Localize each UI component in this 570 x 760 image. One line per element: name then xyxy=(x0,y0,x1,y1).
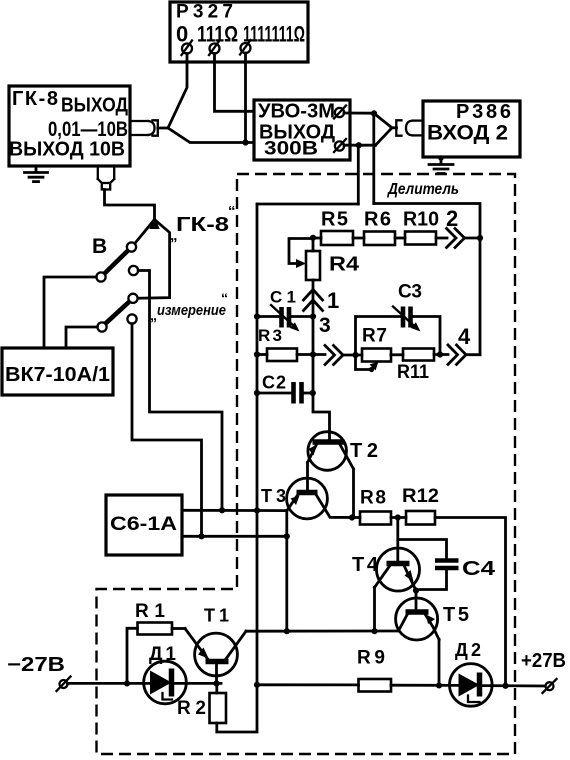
terminal lower of UVO-3M xyxy=(334,139,346,152)
wire +27V rail left segment xyxy=(257,683,359,686)
wire UVO lower terminal right xyxy=(344,144,376,147)
wire C1 left xyxy=(257,315,279,318)
wire T2 collector down to R8 node xyxy=(352,469,355,518)
zener diode D1 xyxy=(144,644,187,704)
resistor R12 xyxy=(402,486,439,525)
instrument box GK-8 generator xyxy=(9,86,130,166)
wire S6-1A lower output to T3 emitter line xyxy=(182,535,287,538)
svg-text:R12: R12 xyxy=(402,486,439,507)
wire pole2 izmerenie contact to S6-1A lower xyxy=(132,324,202,537)
svg-text:„: „ xyxy=(150,307,157,323)
capacitor C2 xyxy=(262,373,302,404)
wire T1 collector row xyxy=(246,630,399,633)
svg-text:1111111Ω: 1111111Ω xyxy=(243,22,305,47)
terminal 1111111ohm of P327 xyxy=(240,40,251,55)
contact pole2 throw izmerenie xyxy=(127,314,136,323)
wire T4 collector down xyxy=(373,588,376,632)
resistor R6 xyxy=(364,209,395,246)
node 1 chevron connector xyxy=(304,290,323,311)
node junction T4 collector on row xyxy=(371,628,377,634)
wire R11 right xyxy=(434,353,448,356)
node junction izm1 on upper wire xyxy=(219,507,225,513)
wire C4 top branch xyxy=(398,540,447,559)
resistor R5 xyxy=(321,209,353,246)
svg-text:R6: R6 xyxy=(364,209,391,231)
node junction T3 emitter on lower wire xyxy=(284,533,290,539)
svg-text:R3: R3 xyxy=(258,326,282,345)
terminal upper of UVO-3M xyxy=(334,106,346,119)
divider left bus vertical xyxy=(217,204,257,732)
node junction R12 branch on rail xyxy=(502,683,508,689)
coax connector at GK-8 output xyxy=(130,120,158,135)
svg-text:R10: R10 xyxy=(403,209,439,231)
wire R3 right to node3 xyxy=(297,353,325,356)
wire R5-R6 xyxy=(353,237,364,240)
svg-text:УВО-3М: УВО-3М xyxy=(258,101,335,123)
svg-text:R4: R4 xyxy=(329,254,360,276)
svg-text:С3: С3 xyxy=(398,282,422,303)
svg-text:R7: R7 xyxy=(362,326,387,347)
wire pole1 common to VK7 xyxy=(44,277,96,348)
wire D2 to +27V terminal xyxy=(480,684,546,687)
ground under P386 xyxy=(429,157,453,174)
svg-text:300В: 300В xyxy=(264,139,318,160)
node junction left bus on +27V rail xyxy=(254,682,260,688)
wire R6-R10 xyxy=(395,237,405,240)
wire T5 base xyxy=(415,591,418,613)
wire C2 left xyxy=(257,392,291,395)
node junction T4 emitter / T5 base / C4 xyxy=(413,587,419,593)
wire T2 emitter to T3 base xyxy=(306,463,309,491)
wire pole2 common to VK7 xyxy=(66,327,97,348)
instrument box S6-1A xyxy=(106,495,182,555)
svg-text:+27В: +27В xyxy=(521,650,566,672)
wire T5 emitter down to rail xyxy=(438,640,441,686)
node 2 chevron connector xyxy=(447,229,465,248)
resistor R3 xyxy=(258,326,297,361)
resistor R1 xyxy=(127,601,172,683)
instrument box P386 xyxy=(423,101,520,157)
wire fork to P386 xyxy=(374,113,397,145)
node junction R7 left xyxy=(352,352,358,358)
wire UVO lower to divider bus left xyxy=(357,145,360,204)
terminal 0 of P327 xyxy=(182,41,193,56)
wire C2 right xyxy=(304,392,313,395)
potentiometer R7 xyxy=(362,326,391,362)
wire node3 to R7 xyxy=(343,354,362,357)
contact pole2 throw GK-8 xyxy=(128,294,137,303)
node junction C2 left on bus xyxy=(254,390,260,396)
transistor T1 xyxy=(185,606,246,676)
transistor T5 xyxy=(396,598,469,640)
contact pole1 throw GK-8 xyxy=(127,242,136,251)
label Delitel xyxy=(385,178,463,198)
svg-text:R5: R5 xyxy=(321,209,348,231)
dashed boundary of divider unit (L-shaped) xyxy=(97,174,516,754)
switch pole1 moving bar xyxy=(105,251,129,274)
capacitor C4 xyxy=(435,558,496,580)
node 3 chevron connector xyxy=(325,346,343,365)
instrument box UVO-3M xyxy=(254,100,350,160)
wire C4 bottom branch xyxy=(420,571,447,590)
trimmer capacitor C1 xyxy=(270,288,300,332)
contact pole1 throw izmerenie xyxy=(129,266,138,275)
transistor T4 xyxy=(352,548,420,591)
terminal +27V xyxy=(543,679,557,693)
terminal -27V xyxy=(57,677,71,692)
wire R4 bottom to node1 and C1 row xyxy=(312,280,315,317)
wire R1 right to T1 emitter xyxy=(172,627,185,630)
wire S6-1A upper output to T3 emitter xyxy=(182,509,287,512)
wire node4 to right bus xyxy=(466,353,480,356)
svg-text:В: В xyxy=(92,235,107,258)
svg-text:4: 4 xyxy=(458,324,471,349)
resistor R11 xyxy=(397,349,434,384)
node junction R4 top xyxy=(310,235,316,241)
svg-text:1: 1 xyxy=(327,288,339,313)
node junction T5 emitter on rail xyxy=(436,682,442,688)
svg-text:С6-1А: С6-1А xyxy=(110,514,177,535)
node junction R1 on rail xyxy=(124,680,130,686)
svg-text:ВК7-10А/1: ВК7-10А/1 xyxy=(5,364,110,386)
coax connector at P386 input xyxy=(396,120,423,135)
wire vertical C1/R3/C2 down to T2 base xyxy=(313,317,330,442)
svg-text:2: 2 xyxy=(446,206,458,231)
arrowhead at switch fork xyxy=(149,216,159,229)
divider top bus right segment xyxy=(374,204,480,355)
svg-text:ГК-8: ГК-8 xyxy=(176,214,229,236)
svg-text:С2: С2 xyxy=(262,373,286,393)
wire T3 emitter down xyxy=(285,511,288,632)
transistor T3 xyxy=(261,478,352,519)
resistor R8 xyxy=(352,488,391,525)
transistor T2 xyxy=(308,432,379,471)
node junction on vertical xyxy=(310,351,316,357)
divider top bus left segment xyxy=(257,203,358,206)
wiper of R4 xyxy=(289,239,313,269)
node junction T4 base xyxy=(395,514,401,520)
wire terminal 111ohm down xyxy=(215,54,255,112)
node junction C1 left on bus xyxy=(254,313,260,319)
wire R3 left xyxy=(257,353,267,356)
node junction T3/T2 collectors at R8 xyxy=(349,514,355,520)
svg-text:ВХОД 2: ВХОД 2 xyxy=(427,122,508,145)
wire UVO upper to divider bus right xyxy=(372,113,375,203)
svg-text:Делитель: Делитель xyxy=(386,181,459,198)
node junction R3 left on bus xyxy=(254,351,260,357)
svg-text:„: „ xyxy=(170,227,178,244)
svg-text:измерение: измерение xyxy=(157,302,226,319)
node junction node2 output on right bus xyxy=(477,235,483,241)
potentiometer R4 xyxy=(306,238,360,280)
node junction C1 right xyxy=(310,313,316,319)
node junction C2 right xyxy=(310,390,316,396)
svg-text:R11: R11 xyxy=(397,362,429,383)
svg-text:R8: R8 xyxy=(360,488,386,509)
node junction izm2 on lower wire xyxy=(198,533,204,539)
svg-text:С4: С4 xyxy=(462,558,496,580)
svg-text:ВЫХОД 10В: ВЫХОД 10В xyxy=(9,139,125,161)
resistor R9 xyxy=(357,648,391,692)
wire -27V rail xyxy=(68,682,151,685)
wire terminal 1111111ohm down xyxy=(244,53,247,143)
wire T4 base from R8/R12 node xyxy=(396,518,399,564)
switch pole2 moving bar xyxy=(106,302,130,324)
svg-text:ГК-8: ГК-8 xyxy=(12,88,58,110)
wire R8-R12 xyxy=(391,516,406,519)
node junction R11 right xyxy=(437,351,443,357)
contact pole2 common xyxy=(97,322,106,331)
svg-text:3: 3 xyxy=(319,314,331,337)
node junction bus on upper wire xyxy=(254,507,260,513)
node dot at P386 ground stub xyxy=(438,155,444,161)
wire plug to switch common fork xyxy=(105,190,155,220)
plug connector below GK-8 xyxy=(98,166,114,190)
wire D1 to T1 base node xyxy=(172,682,222,685)
wire fork right leg to pole2 GK-8 contact xyxy=(138,220,170,299)
wire UVO upper terminal right xyxy=(344,112,374,115)
svg-text:ВЫХОД: ВЫХОД xyxy=(61,95,128,117)
wire T1 base to rail xyxy=(215,662,218,684)
wire fork lower diagonal to UVO input xyxy=(168,128,254,143)
contact pole1 common xyxy=(96,272,105,281)
node junction t3 on UVO input wire xyxy=(242,139,248,145)
node junction T3 emitter on row xyxy=(284,628,290,634)
wire R7-R11 xyxy=(391,353,403,356)
wire C1 right xyxy=(291,315,313,318)
wire fork left leg to pole1 GK-8 contact xyxy=(135,220,155,244)
wire R10 to node 2 xyxy=(436,237,447,240)
zener diode D2 xyxy=(450,640,493,706)
instrument box P327 xyxy=(170,2,308,63)
resistor R10 xyxy=(403,209,439,245)
parallel loop wires for C3 xyxy=(356,317,401,356)
wire R12 right to +27V rail xyxy=(435,518,506,687)
wire R9 to D2 xyxy=(391,684,459,687)
wire pole1 izmerenie contact to S6-1A upper xyxy=(138,271,222,511)
instrument box VK7-10A/1 voltmeter xyxy=(2,348,113,395)
ground under GK-8 xyxy=(25,166,48,182)
wire node2 to right bus xyxy=(465,237,481,240)
resistor R2 xyxy=(177,683,226,723)
svg-text:“: “ xyxy=(221,290,228,306)
node junction on lower wire xyxy=(356,142,362,148)
node junction T1 base / R2 xyxy=(213,680,219,686)
wire R5 row left xyxy=(313,237,321,240)
node 4 chevron connector xyxy=(448,345,466,364)
wiper of R7 xyxy=(356,355,379,372)
node junction on upper wire xyxy=(371,110,377,116)
wire fork upper diagonal to terminal 0 xyxy=(168,54,187,129)
wire connector to fork xyxy=(158,127,168,130)
trimmer capacitor C3 xyxy=(393,282,422,332)
svg-text:“: “ xyxy=(228,203,236,220)
terminal 111ohm of P327 xyxy=(209,41,220,56)
svg-text:−27В: −27В xyxy=(7,654,65,676)
